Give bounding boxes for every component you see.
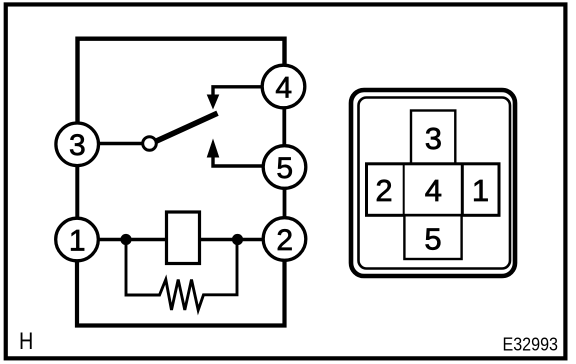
- svg-text:5: 5: [276, 152, 293, 185]
- svg-text:2: 2: [375, 173, 392, 208]
- svg-text:2: 2: [276, 224, 293, 257]
- switch pivot: [143, 137, 157, 151]
- wire top loop: terminal 3 up, across, down to terminal 4: [78, 39, 285, 124]
- terminal 5: [263, 146, 306, 189]
- wire from terminal 3 to switch pivot: [99, 142, 144, 145]
- svg-text:H: H: [19, 329, 33, 355]
- svg-text:3: 3: [425, 121, 442, 156]
- upper contact arrow (points down at blade): [207, 95, 220, 110]
- lower contact arrow (points up at blade): [207, 139, 220, 158]
- terminal 4: [262, 65, 305, 108]
- svg-text:5: 5: [424, 222, 441, 257]
- svg-text:4: 4: [425, 173, 442, 208]
- junction node right: [232, 234, 243, 245]
- svg-text:E32993: E32993: [503, 334, 559, 355]
- relay coil: [167, 212, 200, 264]
- svg-text:1: 1: [472, 173, 489, 208]
- wire bottom loop: terminal 1 down, across, up to terminal 2: [77, 261, 285, 326]
- wire right segment: terminal 5 to terminal 2: [283, 189, 287, 219]
- wire right segment: terminal 4 to terminal 5: [282, 108, 286, 146]
- resistor branch wire with zigzag resistor: [126, 244, 237, 310]
- terminal 3: [56, 123, 99, 166]
- svg-text:3: 3: [69, 129, 86, 162]
- wire from terminal 4 to upper contact: [213, 87, 262, 95]
- connector cavity 3 (top): [411, 111, 455, 164]
- connector inner outline: [359, 98, 511, 269]
- connector cavity row (pins 2,4,1): [367, 164, 500, 216]
- wire between terminal 1 and terminal 2 (coil branch): [99, 238, 263, 241]
- cavity divider between 4 and 1: [461, 164, 464, 216]
- connector cavity 5 (bottom): [404, 215, 461, 259]
- connector outer outline: [351, 90, 515, 276]
- wire from lower contact to terminal 5: [213, 156, 262, 166]
- terminal 2: [263, 218, 306, 261]
- svg-text:4: 4: [275, 71, 292, 104]
- wire left segment: terminal 3 to terminal 1: [75, 165, 79, 219]
- cavity divider between 2 and 4: [403, 164, 405, 216]
- junction node left: [120, 234, 131, 245]
- switch blade: [155, 113, 218, 142]
- terminal 1: [56, 218, 99, 261]
- svg-text:1: 1: [69, 224, 86, 257]
